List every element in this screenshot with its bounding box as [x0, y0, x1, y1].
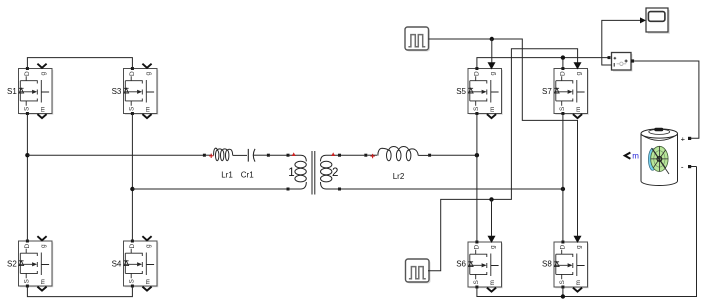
pulse generator PG2: [406, 259, 431, 284]
battery m output chevron: [625, 153, 631, 159]
wire transformer to Lr2: [341, 154, 364, 156]
transistor S5: [456, 67, 503, 118]
svg-text:-: -: [681, 162, 684, 171]
pulse generator PG1: [405, 27, 430, 52]
gate chevron S4: [142, 236, 151, 240]
svg-text:S2: S2: [7, 259, 17, 268]
node right leg A midpoint: [475, 153, 479, 157]
current measurement block U1: [608, 53, 635, 72]
transistor S1: [7, 67, 53, 118]
wire measurement output to scope: [602, 20, 640, 65]
red polarity mark winding 2: [331, 152, 335, 156]
gate arrow S8: [574, 236, 582, 243]
svg-text:Cr1: Cr1: [241, 171, 254, 180]
wire right leg B: [562, 114, 564, 243]
transistor S2: [7, 240, 53, 291]
wire transformer secondary bottom to right leg B: [341, 188, 563, 190]
red plus polarity Lr1: [209, 154, 213, 158]
svg-text:Lr1: Lr1: [221, 171, 233, 180]
svg-text:2: 2: [332, 167, 338, 179]
wire battery minus to bus: [691, 166, 697, 168]
battery minus port: [688, 165, 691, 168]
svg-text:S7: S7: [542, 87, 552, 96]
wire Lr2 to right leg A: [431, 154, 477, 156]
wire right top bus: [477, 58, 608, 69]
gate chevron S2: [37, 236, 46, 240]
svg-text:S3: S3: [112, 87, 122, 96]
node right bottom bus junction: [561, 294, 565, 298]
svg-text:+: +: [681, 134, 686, 143]
wire PG1 to S5 gate: [491, 39, 493, 63]
gate arrow S7: [574, 62, 582, 69]
wire phase B to transformer: [132, 188, 288, 190]
node right top bus junction: [561, 55, 565, 59]
inductor Lr1: [203, 148, 247, 161]
svg-text:S4: S4: [112, 259, 122, 268]
wire left top bus: [27, 58, 132, 69]
red plus polarity Lr2: [370, 154, 374, 158]
wire phase A to series branch: [27, 154, 204, 156]
wire right leg A: [476, 114, 478, 243]
svg-text:S8: S8: [542, 259, 552, 268]
gate chevron S1: [37, 64, 46, 68]
gate arrow S5: [488, 62, 496, 69]
svg-text:m: m: [632, 151, 639, 160]
gate chevron S3: [142, 64, 151, 68]
transistor S8: [542, 241, 589, 292]
svg-text:Lr2: Lr2: [393, 172, 405, 181]
node right leg B midpoint: [561, 187, 565, 191]
gate arrow S6: [488, 236, 496, 243]
arrow into scope: [640, 17, 646, 23]
red polarity mark winding 1: [292, 152, 296, 156]
battery block: [641, 128, 678, 186]
wire measurement to battery plus: [634, 61, 699, 138]
transistor S3: [112, 67, 159, 118]
wire right bottom bus: [477, 167, 697, 297]
wire left bottom bus: [27, 287, 132, 297]
wire S7 drain stub: [562, 58, 564, 69]
transformer T1: [287, 151, 342, 195]
scope block: [646, 8, 670, 34]
node PG2 branch: [489, 197, 493, 201]
transistor S6: [456, 241, 503, 292]
wire PG2 to S6 gate: [491, 199, 493, 236]
svg-text:S1: S1: [7, 87, 17, 96]
node PG1 branch: [490, 37, 494, 41]
wire left leg A: [26, 114, 28, 242]
capacitor Cr1: [248, 149, 270, 162]
wire S8 source stub: [562, 287, 564, 297]
transistor S4: [112, 240, 159, 291]
svg-text:S5: S5: [456, 87, 466, 96]
wire PG2 output: [428, 49, 578, 271]
wire left leg B: [131, 114, 133, 242]
node left leg A midpoint: [25, 153, 29, 157]
wire series branch to transformer: [270, 154, 288, 156]
inductor Lr2: [364, 146, 431, 160]
transistor S7: [542, 67, 589, 118]
node left leg B midpoint: [130, 187, 134, 191]
svg-text:S6: S6: [456, 259, 466, 268]
svg-text:1: 1: [288, 167, 294, 179]
battery plus port: [688, 137, 691, 140]
wire PG1 output: [429, 39, 578, 236]
